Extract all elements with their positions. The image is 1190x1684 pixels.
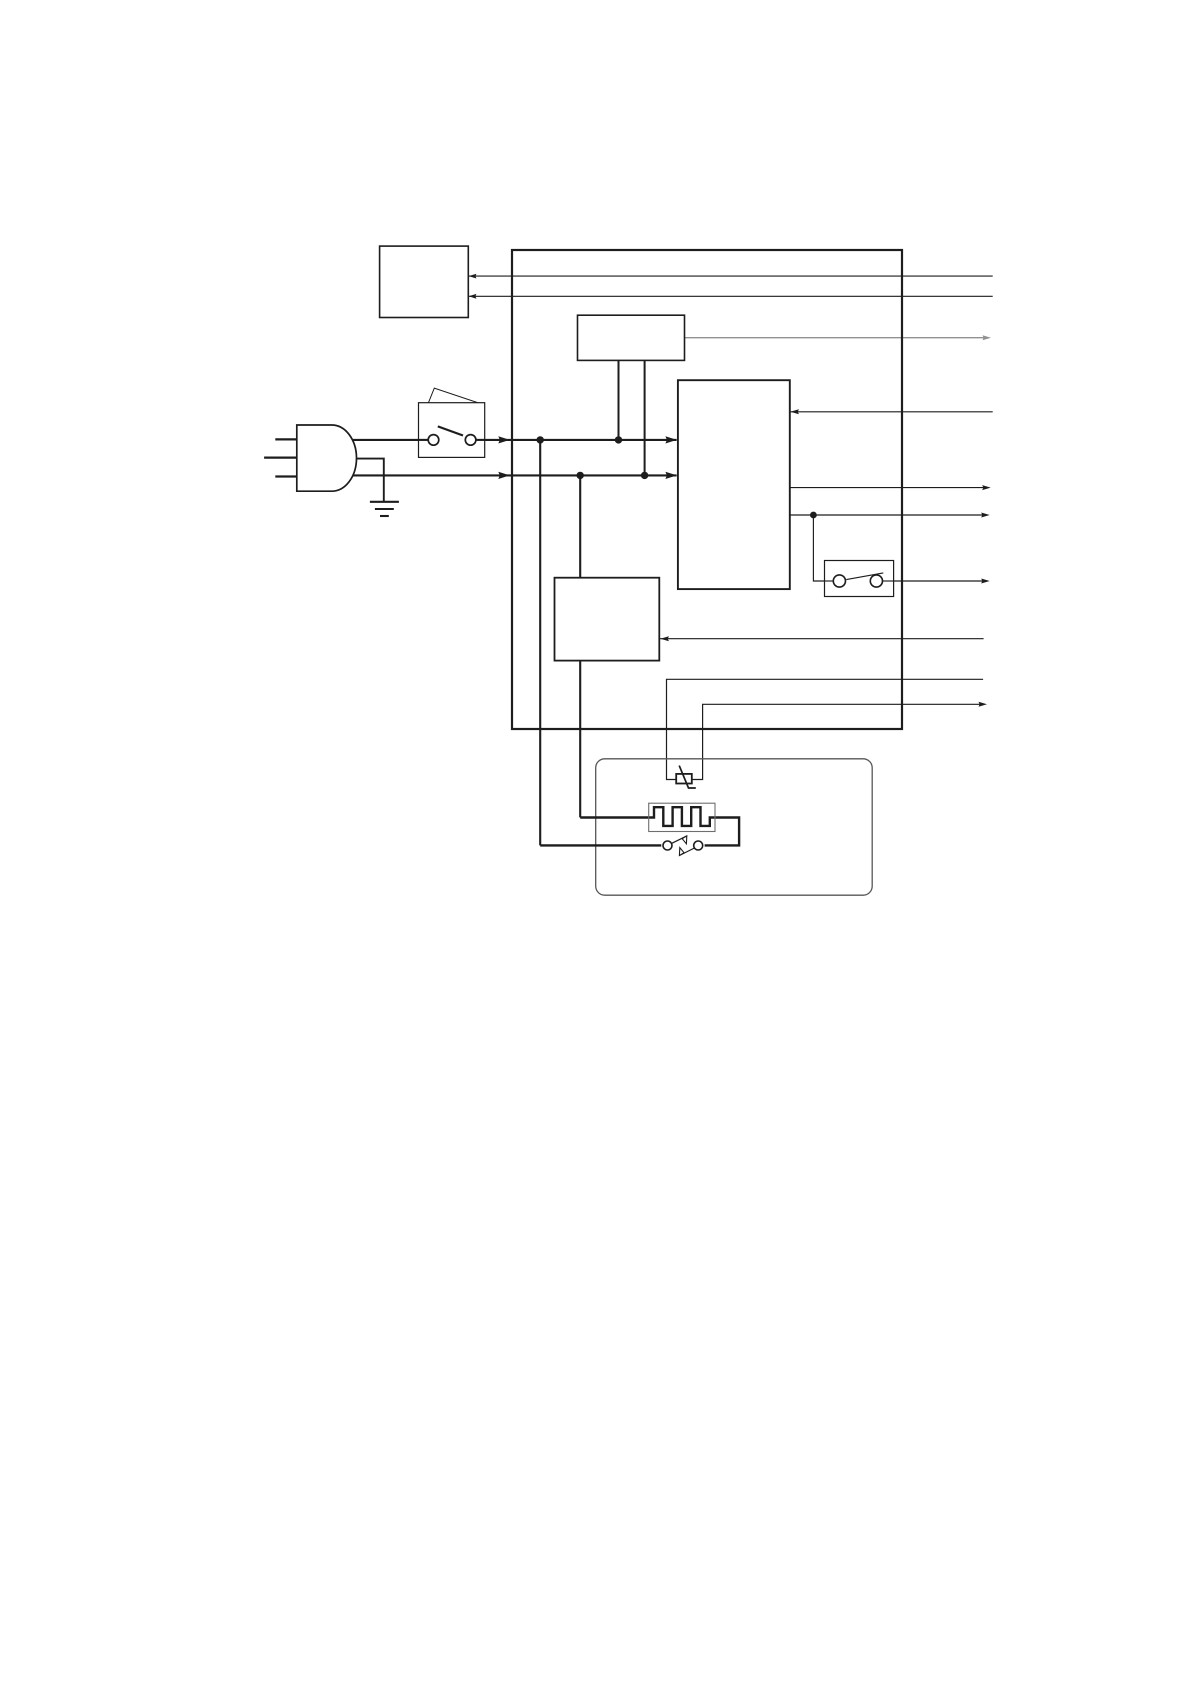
fuser unit enclosure: [596, 759, 873, 895]
arrow into lower box: [660, 636, 669, 641]
arrow live entry: [498, 436, 510, 443]
ground: [370, 502, 399, 516]
wire output big box 2: [790, 514, 986, 516]
wire input to lower box: [660, 638, 984, 640]
wire thermistor left to right edge: [667, 679, 984, 779]
wire drop to interlock switch: [813, 515, 833, 581]
wire ground from plug: [356, 459, 384, 502]
arrow interlock out: [981, 579, 990, 584]
arrow into top-left box 1: [469, 274, 477, 279]
power switch lever: [438, 426, 463, 435]
thermostat contact right: [694, 841, 703, 850]
interlock contact left: [833, 575, 845, 587]
junction dot live-drop: [537, 436, 544, 443]
wire to thermostat: [540, 844, 661, 846]
power switch box: [419, 403, 485, 458]
arrow neutral entry: [498, 472, 510, 479]
interlock lever: [846, 573, 883, 580]
wire input to big box right: [790, 411, 993, 413]
power switch contact right: [465, 435, 476, 446]
arrow neutral into big box: [665, 472, 677, 479]
heater circuit wire: [580, 807, 739, 845]
wire thermistor right lead: [692, 704, 984, 779]
lower box: [555, 578, 660, 661]
arrow output 2: [981, 513, 990, 518]
interlock wire inside: [825, 580, 834, 582]
thermostat lever down: [679, 848, 694, 855]
thermistor strike: [679, 766, 696, 788]
wire gray output from small box: [685, 337, 988, 339]
interlock switch box: [825, 561, 894, 597]
power switch flap: [429, 388, 478, 403]
junction dot interlock tap: [810, 512, 817, 519]
AC plug: [297, 425, 357, 491]
arrow output 1: [982, 485, 991, 490]
arrow thermistor out: [979, 702, 988, 707]
arrow gray: [983, 335, 992, 340]
arrow live into big box: [665, 436, 677, 443]
top-left box: [380, 246, 469, 317]
thermistor body: [676, 774, 692, 784]
power switch contact left: [428, 435, 439, 446]
wire signal to top-left box 2: [469, 295, 993, 297]
junction dot live smallbox: [615, 436, 622, 443]
wire vertical neutral drop to heater: [579, 475, 581, 817]
plug prong bottom: [275, 475, 297, 477]
wire vertical live drop to thermostat: [539, 440, 541, 846]
wire signal to top-left box 1: [469, 275, 993, 277]
wire small box left leg: [618, 360, 620, 440]
wire interlock output: [883, 580, 987, 582]
thermostat arrow down: [679, 848, 684, 856]
big box: [678, 380, 790, 589]
arrow into top-left box 2: [469, 294, 477, 299]
junction dot neutral-drop: [577, 472, 584, 479]
heater frame: [649, 803, 715, 831]
arrow into big box right: [790, 409, 799, 414]
plug prong top: [275, 438, 297, 440]
wire output big box 1: [790, 487, 987, 489]
thermostat lever up: [672, 836, 687, 843]
outer box power supply unit: [512, 250, 902, 729]
thermostat contact left: [663, 841, 672, 850]
wire live bus plug to switch: [352, 439, 428, 441]
power switch wire inside: [419, 439, 429, 441]
plug prong middle: [264, 457, 297, 459]
junction dot neutral smallbox: [641, 472, 648, 479]
wire small box right leg: [644, 360, 646, 475]
arrowheads: [469, 274, 991, 707]
interlock contact right: [870, 575, 882, 587]
thermostat arrow up: [682, 836, 687, 844]
small box: [578, 315, 685, 360]
wire live bus switch to big box: [476, 439, 677, 441]
wire neutral bus: [353, 474, 677, 476]
